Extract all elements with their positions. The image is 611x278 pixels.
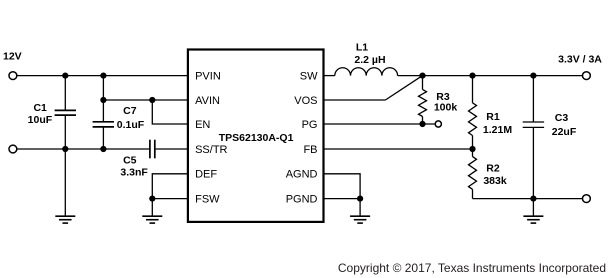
junction PGND/ground column [357, 196, 363, 202]
svg-text:2.2 µH: 2.2 µH [354, 54, 385, 66]
junction SW node / R3 top [419, 73, 425, 79]
svg-text:C5: C5 [123, 155, 137, 167]
value label R3 100k [434, 91, 458, 113]
wire 12V rail to PVIN [17, 75, 188, 77]
wire L1 to output rail [398, 75, 583, 77]
value label C7 0.1uF [117, 105, 145, 131]
wire EN branch vertical [152, 100, 188, 124]
junction C1 top [62, 73, 68, 79]
svg-text:C1: C1 [33, 102, 47, 114]
junction C3 bottom [530, 196, 536, 202]
svg-text:R1: R1 [486, 111, 500, 123]
wire VOS horizontal [324, 99, 386, 101]
wire AVIN rail [103, 99, 187, 101]
terminal output negative [583, 195, 591, 203]
wire bottom-left rail to C5 [17, 148, 149, 150]
resistor R2 [469, 149, 477, 199]
value label L1 2.2 uH [354, 42, 385, 66]
junction C1 bottom rail [62, 146, 68, 152]
value label C1 10uF [28, 102, 53, 126]
capacitor C5 (series on SS/TR) [150, 140, 188, 159]
terminal input negative [9, 145, 17, 153]
svg-text:FSW: FSW [195, 194, 220, 206]
svg-text:PVIN: PVIN [195, 71, 221, 83]
resistor R1 [469, 76, 477, 149]
terminal input positive (12V) [9, 72, 17, 80]
capacitor C1 [55, 76, 76, 149]
junction C3 top [530, 73, 536, 79]
ground (DEF/FSW) [142, 216, 162, 223]
svg-text:SW: SW [300, 71, 318, 83]
junction AVIN/C7 [100, 97, 106, 103]
wire PVIN to AVIN link [102, 76, 104, 100]
svg-text:SS/TR: SS/TR [195, 144, 227, 156]
wire VOS diagonal to SW node [385, 76, 422, 100]
capacitor C3 [523, 76, 544, 199]
value label R2 383k [483, 163, 507, 187]
svg-text:3.3V / 3A: 3.3V / 3A [558, 53, 602, 65]
svg-text:FB: FB [303, 144, 317, 156]
value label C3 22uF [552, 112, 577, 138]
svg-text:R2: R2 [486, 163, 500, 175]
svg-text:0.1uF: 0.1uF [117, 119, 145, 131]
svg-text:100k: 100k [434, 101, 458, 113]
wire C3 to bottom ground [532, 199, 534, 217]
svg-text:AGND: AGND [286, 169, 318, 181]
wire bottom output rail [473, 198, 583, 200]
resistor R3 [419, 76, 427, 124]
terminal output positive [583, 72, 591, 80]
junction FB node [469, 146, 475, 152]
svg-text:C7: C7 [123, 105, 137, 117]
svg-text:L1: L1 [356, 42, 368, 54]
capacitor C7 [93, 100, 114, 149]
junction AVIN/EN branch [149, 97, 155, 103]
ground (C1) [55, 216, 75, 223]
wire C1 ground drop [64, 149, 66, 216]
wire PG [324, 123, 435, 125]
junction C7 column top [100, 73, 106, 79]
svg-text:3.3nF: 3.3nF [120, 167, 148, 179]
wire FSW pin stub [152, 198, 188, 200]
svg-text:AVIN: AVIN [195, 95, 220, 107]
wire DEF pin stub [152, 174, 188, 216]
svg-text:C3: C3 [555, 112, 569, 124]
svg-text:PG: PG [302, 119, 318, 131]
junction R1 top [469, 73, 475, 79]
svg-text:383k: 383k [483, 175, 507, 187]
svg-text:VOS: VOS [294, 95, 317, 107]
junction FSW/ground column [149, 196, 155, 202]
wire AGND stub [324, 174, 361, 216]
svg-text:12V: 12V [3, 50, 22, 62]
svg-text:Copyright © 2017, Texas Instru: Copyright © 2017, Texas Instruments Inco… [338, 261, 606, 275]
value label C5 3.3nF [120, 155, 148, 179]
svg-text:TPS62130A-Q1: TPS62130A-Q1 [219, 132, 294, 144]
inductor L1 [335, 68, 398, 76]
value label R1 1.21M [483, 111, 512, 136]
junction C7 bottom rail [100, 146, 106, 152]
svg-text:PGND: PGND [286, 194, 318, 206]
wire PGND stub [324, 198, 361, 200]
ground (AGND/PGND) [350, 216, 370, 223]
wire SW to L1 [324, 75, 335, 77]
wire FB [324, 148, 473, 150]
svg-text:DEF: DEF [195, 169, 217, 181]
ground (C3) [523, 216, 543, 223]
op-amp U1 TPS62130A-Q1 IC box [188, 50, 324, 222]
svg-text:EN: EN [195, 119, 210, 131]
junction PG/R3 bottom [419, 121, 425, 127]
svg-text:1.21M: 1.21M [483, 124, 512, 136]
terminal PG output [435, 121, 441, 127]
svg-text:10uF: 10uF [28, 114, 53, 126]
svg-text:22uF: 22uF [552, 126, 577, 138]
